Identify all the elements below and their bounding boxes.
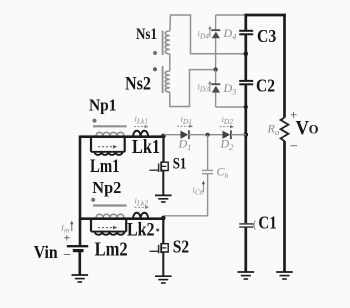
ground S2 <box>155 276 172 283</box>
wire D1 to D2 <box>188 134 222 136</box>
phase dot Lk2 <box>156 229 159 232</box>
svg-text:Vin: Vin <box>34 242 58 262</box>
winding Np1 <box>96 132 124 136</box>
wire phase-2 row <box>80 217 163 220</box>
current label Iin <box>60 221 74 235</box>
wire output rail C3 to C2 <box>244 34 247 81</box>
wire input rail <box>79 136 82 247</box>
wire Vin to ground <box>79 252 82 275</box>
ground Vin <box>72 275 89 282</box>
wire phase-1 row <box>80 135 164 138</box>
node S1 drain / D1 anode <box>161 134 166 139</box>
svg-text:+: + <box>64 231 71 245</box>
inductor Lm2 <box>91 219 126 235</box>
wire output rail C2 to C1 <box>244 84 247 224</box>
wire D3-anode to output rail <box>216 106 246 108</box>
winding Np1 core <box>93 125 127 127</box>
inductor Lk1 <box>133 131 148 137</box>
wire Cb bottom return <box>163 174 207 216</box>
svg-text:Lk2: Lk2 <box>127 220 155 241</box>
current label iD3 <box>198 81 212 94</box>
wire S2 drain <box>162 219 164 243</box>
svg-text:V: V <box>296 118 310 139</box>
capacitor C1 <box>239 224 253 227</box>
battery Vin <box>67 246 88 250</box>
winding Ns2 core <box>162 66 164 93</box>
svg-text:C1: C1 <box>258 213 276 233</box>
phase dot Ns1 <box>153 51 157 55</box>
wire Ns1-top to C3/C2 junction <box>170 15 246 54</box>
current arrow iLm1 <box>98 145 117 149</box>
node Cb tap <box>206 133 210 137</box>
node D-row on rail <box>244 132 249 137</box>
diode D2 <box>223 130 231 139</box>
transistor S2 <box>150 243 169 253</box>
winding Ns1 <box>165 31 170 54</box>
wire D4-cathode to top rail <box>216 14 245 16</box>
wire D2 to rail <box>231 134 246 136</box>
svg-text:Np1: Np1 <box>89 96 117 115</box>
inductor Lm1 <box>91 137 125 155</box>
svg-text:–: – <box>63 246 71 261</box>
wire output rail C1 to ground <box>244 227 247 272</box>
wire S2 source to ground <box>162 252 164 276</box>
current label iCb <box>193 181 206 197</box>
diode D1 <box>181 130 189 139</box>
phase dot Np1 <box>93 119 97 123</box>
svg-text:Np2: Np2 <box>92 178 121 197</box>
current label iD4 <box>198 26 212 41</box>
winding Np2 <box>96 214 124 218</box>
current arrow iLm2 <box>98 226 117 230</box>
diode D4 <box>211 15 220 70</box>
current label iD1 <box>177 114 193 128</box>
svg-text:Ns2: Ns2 <box>125 74 151 95</box>
current label iD2 <box>220 114 235 128</box>
wire output rail top segment <box>244 14 247 31</box>
wire Ns1-Ns2 series link <box>169 54 171 71</box>
svg-text:Lm2: Lm2 <box>95 239 128 261</box>
svg-text:–: – <box>290 137 298 152</box>
capacitor C3 <box>239 31 253 35</box>
transistor S1 <box>150 161 169 172</box>
current label iLk1 <box>134 114 149 129</box>
svg-text:O: O <box>309 123 319 137</box>
winding Ns1 core <box>162 31 164 55</box>
node D4-anode / D3-cathode junction <box>213 67 217 71</box>
ground Vo rail <box>276 272 293 279</box>
svg-text:Lk1: Lk1 <box>132 136 160 158</box>
wire Ns2-bottom to D3/D4 junction <box>170 70 213 107</box>
winding Np2 core <box>93 204 127 206</box>
svg-text:Lm1: Lm1 <box>90 156 120 177</box>
ground output rail <box>238 272 255 279</box>
svg-text:C3: C3 <box>257 26 277 46</box>
svg-text:C2: C2 <box>256 76 275 96</box>
phase dot Np2 <box>91 198 95 202</box>
phase dot Ns2 <box>153 67 157 71</box>
svg-text:S1: S1 <box>173 154 187 172</box>
wire to D1 <box>164 134 181 136</box>
ground S1 <box>155 195 172 202</box>
capacitor C2 <box>239 81 253 84</box>
capacitor Cb <box>202 170 213 173</box>
node C2-top junction on output rail <box>244 51 249 56</box>
svg-text:Ns1: Ns1 <box>136 24 157 43</box>
winding Ns2 <box>165 71 170 92</box>
svg-text:S2: S2 <box>173 237 189 257</box>
inductor Lk2 <box>133 213 148 219</box>
wire Cb top <box>207 135 209 170</box>
resistor Ro <box>281 118 289 142</box>
wire S1 drain <box>162 137 164 162</box>
diode D3 <box>211 70 220 107</box>
wire output top rail <box>245 14 286 17</box>
wire Vo rail upper <box>283 14 286 118</box>
node S2 drain / Cb return <box>161 216 166 221</box>
node D3-anode on rail <box>244 105 248 109</box>
wire S1 source to ground <box>162 171 164 196</box>
current label iLk2 <box>135 196 150 210</box>
wire Vo rail lower <box>283 141 286 272</box>
